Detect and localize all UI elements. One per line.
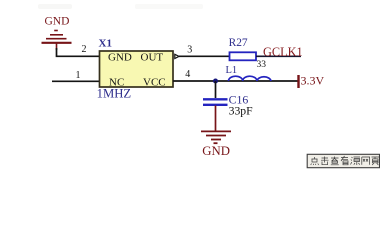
wire pin3 to resistor (179, 55, 229, 57)
svg-text:3.3V: 3.3V (301, 74, 325, 88)
页 (372, 157, 380, 165)
svg-text:3: 3 (187, 45, 192, 56)
watermark text 点击查看源网页 (drawn strokes) (311, 156, 379, 165)
ground GND (top-left power port, bars point up) (42, 31, 72, 51)
网 (362, 157, 370, 165)
svg-text:4: 4 (185, 69, 190, 80)
junction dot (213, 79, 218, 84)
capacitor C16 (203, 99, 228, 105)
源 (351, 157, 361, 165)
crystal oscillator X1 body (100, 51, 174, 87)
wire pin2 from GND to X1 (57, 48, 100, 56)
svg-text:GND: GND (45, 16, 70, 28)
svg-text:33: 33 (257, 60, 267, 70)
svg-text:GCLK1: GCLK1 (263, 45, 303, 59)
inductor L1 (229, 76, 272, 81)
wire pin1 (NC stub) (52, 80, 100, 82)
OUT pin clock arrow (175, 54, 179, 58)
svg-text:GND: GND (202, 144, 230, 158)
svg-text:GND: GND (108, 52, 132, 64)
点 (311, 157, 319, 165)
wire junction down to C16 (215, 81, 217, 98)
svg-text:X1: X1 (99, 38, 112, 50)
svg-text:OUT: OUT (141, 52, 164, 64)
svg-text:L1: L1 (226, 65, 238, 76)
查 (331, 157, 339, 165)
wire capacitor to ground (215, 106, 217, 132)
svg-text:VCC: VCC (143, 77, 166, 89)
watermark button box (307, 154, 379, 167)
ground GND (bottom earth symbol) (201, 131, 231, 143)
svg-text:1: 1 (76, 70, 81, 81)
wire resistor to GCLK1 (256, 55, 301, 57)
svg-text:R27: R27 (229, 37, 248, 49)
wire pin4 from X1 to 3.3V (173, 80, 298, 82)
svg-text:1MHZ: 1MHZ (97, 87, 132, 101)
看 (341, 156, 348, 165)
power port 3.3V bar (297, 75, 299, 88)
svg-text:33pF: 33pF (229, 104, 254, 117)
resistor R27 (230, 52, 257, 60)
击 (321, 157, 329, 165)
svg-text:2: 2 (82, 44, 87, 55)
